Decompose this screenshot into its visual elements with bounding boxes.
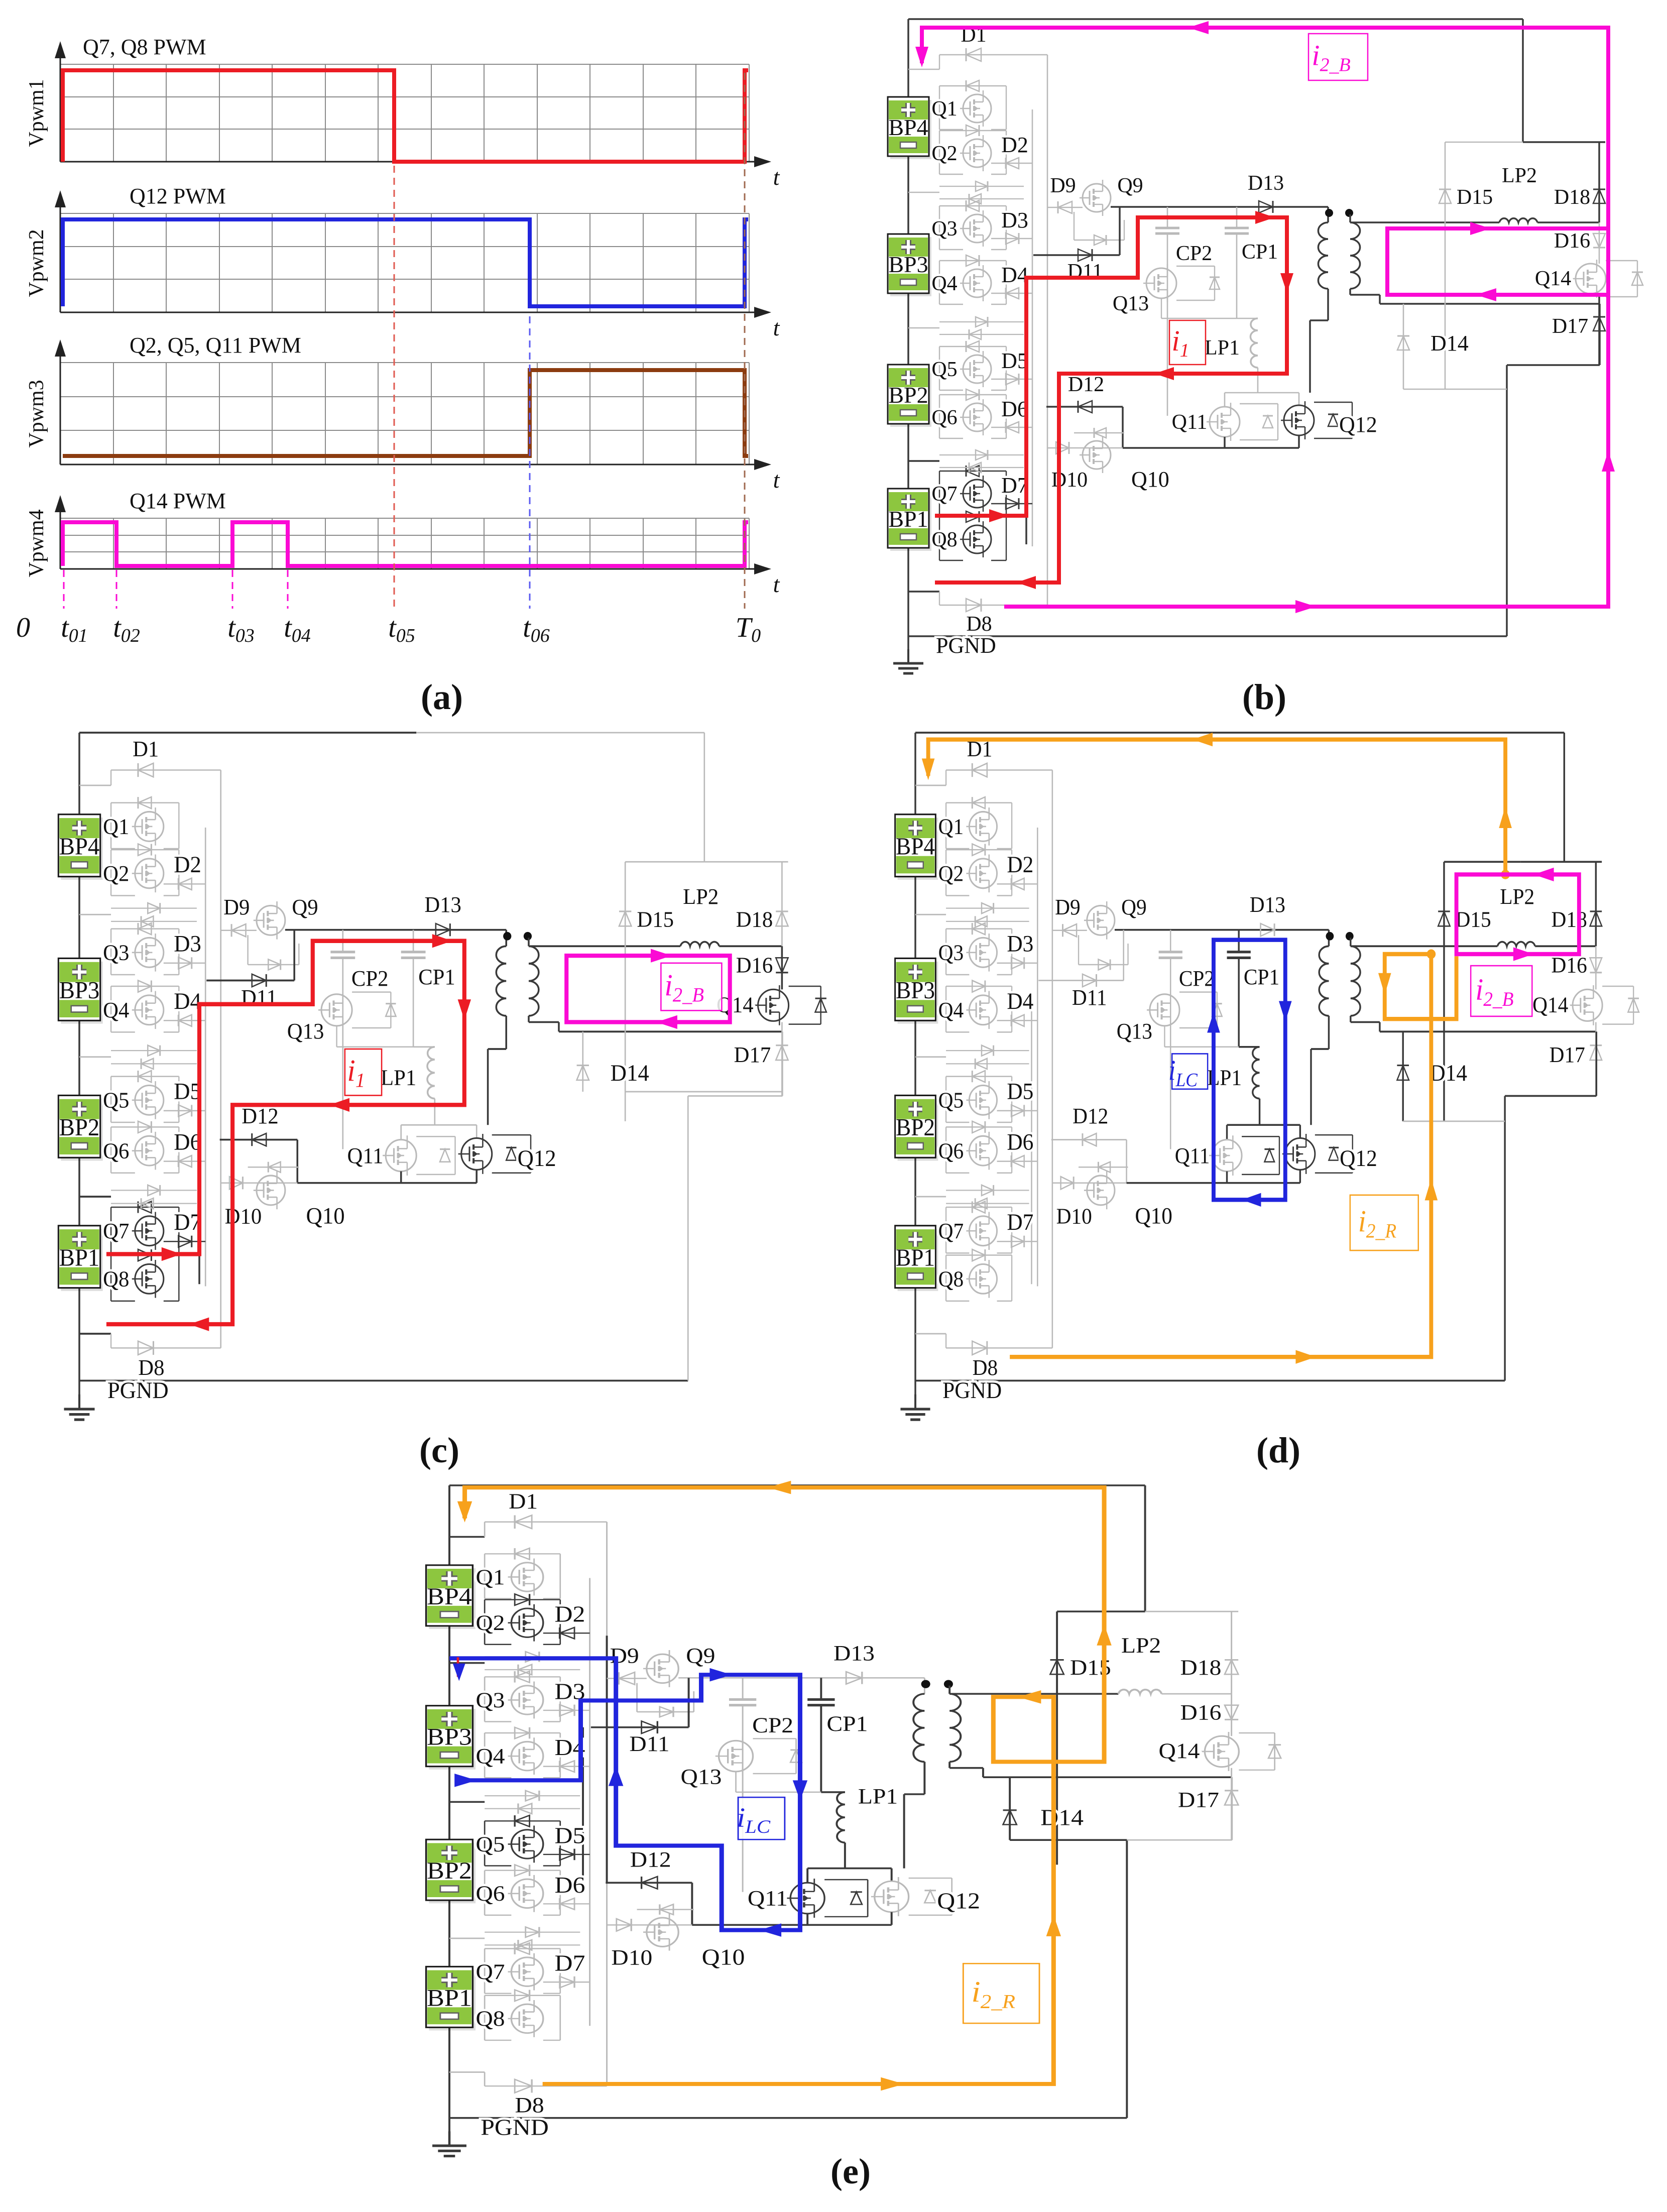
(d) diode D3 [997,963,1038,964]
(c) diode Q7 body [138,1201,151,1213]
svg-text:D14: D14 [1431,331,1469,356]
(b) wire output box left [1445,142,1446,389]
(d) battery BP3 [898,962,938,1024]
waveform Vpwm1 red Q7,Q8 PWM [63,70,748,162]
svg-text:D17: D17 [1178,1788,1219,1812]
(c) wire bottom-right riser [687,1096,689,1380]
(b) capacitor CP1 [1236,207,1238,228]
(c) diode D10 [221,1182,298,1183]
(d) diode D5 [997,1110,1038,1111]
svg-text:D10: D10 [611,1945,652,1969]
svg-text:CP2: CP2 [1179,967,1215,991]
(e) diode Q3 body [515,1671,529,1683]
(d) diode pair [946,1050,1029,1051]
(e) wire Q7 body loop [485,1948,560,1949]
(d) diode D12 [1051,1139,1127,1140]
(e) wire Q8 body loop [485,1995,560,1996]
svg-text:D2: D2 [174,852,201,878]
svg-text:D16: D16 [736,953,773,978]
svg-text:D3: D3 [174,930,201,957]
svg-text:D8: D8 [973,1356,998,1380]
svg-text:0: 0 [16,612,30,643]
(d) ground PGND [914,1394,916,1409]
svg-text:Q8: Q8 [931,528,957,551]
(d) diode D13 [1261,923,1275,936]
svg-text:Q9: Q9 [1117,174,1143,197]
(e) wire output box bottom [1010,1839,1127,1841]
(d) wire output box top [1444,861,1521,863]
(e) diode D8 [485,2085,607,2086]
svg-text:(e): (e) [830,2151,871,2191]
svg-text:D9: D9 [1050,174,1076,197]
(d) wire top-right drop [1564,733,1566,862]
svg-text:Vpwm1: Vpwm1 [25,79,48,147]
(c) battery BP1 [61,1229,102,1291]
(d) mosfet Q1 [969,812,997,842]
(b) mosfet Q8 [963,525,991,553]
(b) wire LP1-Q11Q12 [1225,392,1299,394]
(b) wire output box top [1445,142,1523,143]
svg-text:BP2: BP2 [427,1857,472,1884]
(c) wire top-right drop [704,733,705,862]
svg-text:Q4: Q4 [103,998,129,1022]
svg-text:D5: D5 [1007,1078,1033,1104]
(e) wire Q2 body loop [485,1599,560,1600]
(e) transformer primary [913,1694,924,1762]
svg-text:Q10: Q10 [702,1945,745,1969]
(d) diode Q2 body [972,844,985,856]
(d) wire secondary bottom [1350,1016,1352,1022]
(d) label iLC box [1172,1054,1208,1089]
(b) diode Q6 body [966,389,979,400]
(d) label i2_R box [1350,1195,1418,1250]
svg-text:Q14: Q14 [1159,1739,1200,1763]
svg-text:D13: D13 [1250,893,1285,917]
(e) battery BP3 [429,1709,475,1770]
svg-text:Q12: Q12 [1340,1145,1377,1172]
(c) label i1 box [345,1049,382,1095]
svg-text:D14: D14 [1430,1060,1467,1086]
svg-text:D16: D16 [1554,229,1590,253]
(b) diode D11 [1033,254,1120,256]
(b) wire Q14 body loop [1606,260,1637,261]
svg-text:Q7: Q7 [475,1960,505,1984]
(b) diode pair [939,321,1024,322]
(c) diode pair [111,1190,197,1191]
(d) diode Q1 body [972,797,985,808]
(c) current path i1 red [106,941,464,1324]
svg-text:Q1: Q1 [931,97,957,121]
svg-text:BP3: BP3 [59,978,100,1004]
(c) diode D16 [781,946,783,989]
(c) mosfet Q2 [135,859,164,888]
svg-text:Q14 PWM: Q14 PWM [130,489,226,513]
svg-text:Vpwm3: Vpwm3 [25,380,48,447]
(c) wire Q3 body loop [111,928,179,929]
(e) mosfet Q5 [511,1830,543,1858]
svg-text:Q5: Q5 [103,1088,129,1113]
(e) wire Q1 body loop [485,1553,560,1554]
svg-text:t: t [773,467,780,493]
(b) mosfet Q5 [963,355,991,383]
svg-text:D4: D4 [1007,988,1033,1014]
(e) ground PGND [448,2131,450,2146]
(d) wire hv link [1115,929,1329,931]
(c) capacitor CP2 [342,930,343,952]
(d) diode Q3 body [972,923,985,935]
(c) wire primary bottom [505,1016,507,1049]
(b) mosfet Q11 [1210,407,1240,437]
svg-text:D6: D6 [555,1873,585,1898]
(e) diode D13 [846,1672,862,1684]
(c) mosfet Q7 [135,1216,164,1246]
(b) diode D18 [1593,189,1605,203]
waveform Vpwm2 blue Q12 PWM [63,219,748,306]
(d) wire Q8 body loop [946,1254,1012,1255]
svg-text:Q4: Q4 [931,272,957,295]
svg-text:D2: D2 [555,1602,585,1627]
svg-text:Q1: Q1 [103,814,129,839]
(d) diode D16 [1595,946,1597,989]
(c) battery BP4 [61,818,102,880]
(b) wire Q13 body loop [1176,266,1215,267]
(c) diode Q2 body [138,844,151,856]
dashed t03 [232,570,233,609]
(c) mosfet Q6 [135,1136,164,1166]
(d) current path iLC blue loop [1214,940,1285,1200]
(d) wire tap1 [915,914,946,915]
(e) diode Q4 body [515,1727,529,1739]
(e) wire bus2 [606,1522,608,1636]
(e) diode pair [485,1795,580,1796]
dashed t04 [287,570,289,609]
(d) mosfet Q6 [969,1136,997,1166]
dashed t02 [116,570,117,609]
(d) wire output box bottom [1403,1121,1505,1122]
(e) diode Q5 body [515,1815,529,1827]
(d) wire bottom-right riser [1504,1096,1506,1380]
(d) mosfet Q8 [969,1264,997,1294]
axis Vpwm3 [60,464,767,465]
(d) wire Q13 body loop [1179,991,1217,992]
svg-text:D10: D10 [225,1204,262,1229]
svg-text:D18: D18 [1180,1656,1222,1679]
(c) mosfet Q3 [135,938,164,967]
(e) label iLC box [738,1797,785,1839]
(e) mosfet Q9 [647,1654,678,1683]
(c) wire Q10 loop [248,1167,299,1168]
(b) diode D9 [1047,207,1083,208]
(e) diode D5 [543,1854,590,1855]
svg-text:D3: D3 [1007,930,1033,957]
(c) wire tap2 [79,1056,111,1058]
(d) battery BP1 [898,1229,938,1291]
svg-text:Q10: Q10 [306,1203,345,1229]
svg-text:BP4: BP4 [888,114,928,140]
svg-text:PGND: PGND [481,2116,549,2140]
waveform Vpwm3 brown Q2,Q5,Q11 PWM [63,370,748,456]
dashed t06 [529,316,531,609]
(c) wire bus2 [220,770,221,1348]
svg-text:LP2: LP2 [683,885,719,909]
(b) battery BP1 [890,492,931,551]
(d) mosfet Q10 [1087,1176,1115,1205]
svg-text:(a): (a) [421,677,463,717]
(e) mosfet Q6 [511,1879,543,1908]
svg-text:PGND: PGND [942,1377,1002,1404]
(b) wire Q10 loop [1074,432,1124,433]
(b) wire Q12 body loop [1314,402,1352,403]
(e) diode D7 [543,1982,590,1983]
(c) wire Q7 body loop [111,1207,179,1208]
svg-text:Q9: Q9 [686,1644,715,1668]
(e) diode D4 [543,1766,590,1767]
(c) inductor LP2 [680,942,719,947]
(d) current path i2_B magenta loop [1457,874,1579,954]
(e) diode D17 [1231,1768,1232,1840]
(b) wire top-right drop [1522,19,1524,142]
(c) wire secondary top [528,938,530,946]
(e) mosfet Q14 [1205,1736,1239,1767]
(e) wire Q9 loop [636,1683,637,1712]
(c) wire D17 return box [688,1095,782,1097]
(e) battery BP1 [429,1970,475,2031]
(d) mosfet Q12 [1285,1138,1315,1170]
(d) mosfet Q2 [969,859,997,888]
svg-text:D7: D7 [555,1951,585,1976]
svg-text:LP1: LP1 [1205,336,1240,360]
svg-text:Q3: Q3 [938,941,964,965]
(b) mosfet Q12 [1284,405,1314,435]
(d) mosfet Q13 [1150,994,1179,1026]
svg-text:D7: D7 [1001,473,1028,498]
(b) diode pair [939,186,1024,187]
svg-text:Q7: Q7 [938,1219,964,1243]
svg-text:Q5: Q5 [938,1088,964,1112]
(b) wire bottom bus [908,635,1507,637]
(e) mosfet Q7 [511,1957,543,1986]
(c) mosfet Q14 [758,989,789,1021]
(b) wire D17 return box [1507,364,1600,366]
(e) wire tap4 [449,2071,485,2073]
(c) wire Q12 body loop [492,1134,531,1135]
(c) wire output box left [625,862,626,1121]
svg-text:D2: D2 [1001,133,1028,157]
(b) diode D13 [1259,201,1273,213]
svg-text:D8: D8 [966,613,992,636]
(d) wire Q14 body loop [1602,986,1633,987]
(b) transformer primary [1318,222,1328,289]
svg-text:BP1: BP1 [427,1985,472,2011]
(b) battery BP2 [890,368,931,427]
(c) diode Q1 body [138,797,151,808]
label Vpwm4 [25,509,48,577]
(e) label i2_R box [963,1963,1039,2023]
(c) diode D4 [164,1020,205,1021]
(e) transformer secondary [949,1694,961,1762]
(e) diode Q6 body [515,1865,529,1876]
svg-text:(d): (d) [1256,1430,1300,1470]
(d) inductor LP1 [1252,1047,1259,1099]
(b) diode Q7 body [966,465,979,477]
(b) wire Q9 loop [1074,212,1075,240]
(d) diode pair [946,908,1029,909]
(d) wire output box left [1443,862,1445,1121]
svg-text:Q9: Q9 [1121,895,1147,919]
(b) diode D7 [991,503,1032,504]
(d) wire bus2 [1052,770,1053,1348]
svg-text:D8: D8 [138,1355,164,1380]
(e) wire Q13 source [735,1772,736,1792]
(b) capacitor CP2 [1167,207,1168,228]
(c) diode D11 [206,980,294,982]
(d) wire tap2 [915,1056,946,1058]
(e) wire Q5 body loop [485,1820,560,1821]
(b) wire bottom-right riser [1506,365,1508,636]
(e) diode Q2 body [515,1594,529,1605]
(e) wire mid bottom [692,1924,891,1926]
(c) mosfet Q11 [386,1140,416,1172]
svg-text:Q6: Q6 [938,1139,964,1163]
(e) inductor LP1 [837,1792,845,1842]
(e) inductor LP2 [1118,1690,1161,1694]
svg-text:t: t [773,164,780,190]
(d) wire output box right [1595,862,1597,946]
svg-text:CP2: CP2 [351,966,389,991]
(e) wire bottom bus [449,2117,1127,2119]
svg-text:(c): (c) [419,1430,459,1470]
(d) wire Q2 body loop [946,849,1012,850]
(b) current path i1 red [935,217,1287,583]
(d) battery BP2 [898,1099,938,1161]
svg-text:Q10: Q10 [1131,467,1169,492]
label Vpwm2 [25,229,48,297]
(e) wire LP1-Q11Q12 [807,1868,892,1870]
(d) label i2_B box [1471,966,1532,1016]
(b) current path i2_B magenta inner [1387,228,1608,295]
(b) diode D5 [991,379,1032,380]
svg-text:Q4: Q4 [475,1744,505,1768]
(c) diode D18 [776,911,788,926]
svg-text:BP2: BP2 [888,382,928,408]
(c) wire Q8 body loop [111,1254,179,1255]
(e) diode D14 [1009,1777,1011,1840]
(d) wire top bus [915,732,1564,734]
(b) wire Q6 body loop [939,394,1006,395]
(d) wire LP1-Q11Q12 [1227,1124,1300,1126]
(b) wire bus2 [1047,55,1048,605]
(b) mosfet Q2 [963,139,991,167]
svg-text:D12: D12 [1068,373,1104,396]
(e) wire Q12 body loop [909,1878,952,1879]
svg-text:D16: D16 [1552,954,1587,978]
svg-text:D13: D13 [1248,172,1284,195]
svg-text:D18: D18 [1552,907,1587,932]
(b) wire tap1 [908,192,939,193]
svg-text:Q1: Q1 [475,1565,505,1589]
svg-text:Q2, Q5, Q11 PWM: Q2, Q5, Q11 PWM [130,333,301,358]
svg-text:Q12 PWM: Q12 PWM [130,184,226,208]
svg-text:CP1: CP1 [826,1712,868,1735]
(b) ground PGND [907,649,909,663]
(c) mosfet Q4 [135,995,164,1025]
(b) wire secondary top [1349,214,1351,222]
(b) wire Q5 body loop [939,346,1006,347]
(e) mosfet Q4 [511,1741,543,1770]
(b) inductor LP2 [1499,218,1537,222]
(c) wire hv link [285,929,506,931]
(e) wire output box right [1231,1611,1232,1694]
svg-text:Q8: Q8 [103,1267,129,1292]
(b) label i1 box [1169,320,1206,365]
svg-text:BP1: BP1 [59,1245,100,1271]
(b) diode D8 [939,605,1047,606]
svg-text:LP2: LP2 [1502,164,1537,187]
(c) wire bus1 [205,828,206,1287]
(e) diode Q8 body [515,1990,529,2002]
svg-text:Q3: Q3 [103,941,129,965]
axis Vpwm4 [60,568,767,570]
svg-text:Q12: Q12 [1339,412,1377,437]
(c) wire bottom bus [79,1380,688,1382]
svg-text:t: t [773,571,780,597]
svg-text:D16: D16 [1180,1700,1222,1724]
(b) diode Q2 body [966,125,979,136]
(e) current path i2_R orange [465,1487,1105,2084]
(c) wire Q2 body loop [111,849,179,850]
(c) diode Q6 body [138,1121,151,1133]
(e) diode D1 [485,1522,607,1523]
(e) capacitor CP1 [820,1678,822,1699]
(e) diode D16 [1231,1694,1232,1736]
(d) wire mid bottom [1127,1182,1300,1184]
(d) wire tap3 [915,1196,946,1198]
(d) wire secondary top [1350,938,1352,946]
(d) diode Q7 body [972,1201,985,1213]
svg-text:CP1: CP1 [1244,965,1279,989]
(e) wire D17 return box [1127,1839,1232,1841]
svg-text:CP2: CP2 [1176,242,1212,265]
(b) wire left rail [907,19,909,663]
(b) diode D3 [991,238,1032,239]
svg-text:Q7: Q7 [931,483,957,506]
(c) mosfet Q10 [257,1176,285,1205]
(e) wire Q10 loop [637,1909,694,1910]
(e) wire hv link [678,1677,924,1679]
(c) diode D9 [221,930,257,931]
svg-text:Q6: Q6 [475,1882,505,1905]
(b) wire top bus [908,18,1523,20]
(c) diode Q4 body [138,981,151,992]
(c) mosfet Q1 [135,812,164,842]
svg-text:D13: D13 [424,892,461,917]
svg-text:BP1: BP1 [896,1244,935,1271]
(d) diode D2 [997,883,1038,884]
svg-text:Q12: Q12 [518,1145,556,1171]
svg-text:D12: D12 [242,1104,279,1128]
(e) wire tap3 [449,1938,485,1939]
svg-text:CP1: CP1 [1242,241,1278,264]
svg-text:D10: D10 [1051,469,1088,492]
(e) wire output box top [1057,1610,1145,1612]
(c) battery BP2 [61,1099,102,1161]
(d) wire bottom bus [915,1380,1505,1382]
(b) wire Q3 body loop [939,205,1006,206]
panel (a) PWM waveforms [16,35,780,646]
(b) diode D10 [1047,447,1123,448]
(c) wire Q13 body loop [352,991,391,992]
(b) wire black branch [1025,278,1027,544]
